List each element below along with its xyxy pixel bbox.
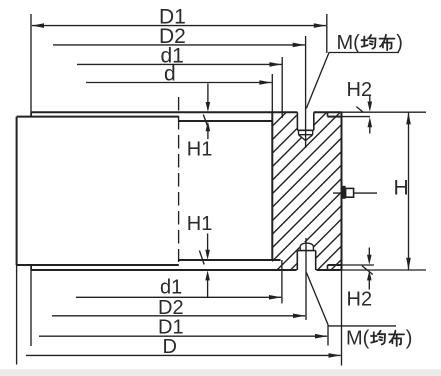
glyph jun top	[362, 35, 376, 49]
svg-text:): )	[406, 327, 413, 349]
dim d1 top line	[77, 63, 282, 65]
top hole centerline / D2 extension	[305, 36, 307, 148]
dim D2 bottom line	[52, 315, 305, 317]
svg-text:M(: M(	[337, 32, 361, 54]
dim d top extension	[271, 74, 273, 112]
label M bottom with leader	[306, 273, 396, 326]
bottom recess floor y=260	[179, 259, 281, 261]
dim H right	[408, 112, 410, 270]
svg-text:H2: H2	[347, 289, 373, 311]
svg-text:): )	[396, 32, 403, 54]
rim top outline y=112.2	[31, 111, 341, 113]
bottom-left shoulder edge y=265	[17, 264, 179, 266]
dim d1 bottom extension	[281, 260, 283, 304]
svg-text:d: d	[164, 63, 176, 86]
body right edge	[341, 112, 343, 270]
dim D2 top arrow	[293, 43, 305, 48]
svg-text:M(: M(	[346, 327, 370, 349]
dim d1 bottom arrow	[269, 295, 281, 300]
centerline (dashed axis)	[178, 97, 180, 262]
bottom threaded hole M (white cutout)	[297, 242, 317, 271]
svg-text:d1: d1	[160, 276, 182, 298]
bottom-right shoulder edge y=265	[328, 264, 342, 266]
label M top with leader	[306, 53, 399, 109]
svg-text:D: D	[163, 336, 177, 358]
dim D1 top left arrow	[32, 23, 44, 28]
hatched section block	[95, 100, 441, 290]
dim D1 top line	[32, 25, 326, 27]
glyph bu top	[380, 35, 395, 50]
step corner right top	[327, 112, 329, 116]
dim d top arrow	[259, 80, 271, 85]
right edge extension down to D dim	[341, 270, 343, 366]
step corner right bottom	[327, 265, 329, 270]
dim d1 top arrow	[269, 62, 281, 67]
left edge extension down to D dim	[16, 265, 18, 365]
top-right shoulder extension for H2	[342, 116, 371, 118]
svg-text:H2: H2	[347, 79, 373, 101]
dim D bottom arrow	[329, 353, 341, 358]
body left edge	[16, 117, 18, 265]
bottom threaded hole outline	[297, 251, 315, 270]
svg-text:H1: H1	[187, 139, 213, 161]
dim D2 top line	[53, 44, 305, 46]
step corner left top	[30, 112, 32, 116]
dim D1 bottom arrow	[315, 334, 327, 339]
dim D1 bottom line	[39, 335, 327, 337]
svg-text:H1: H1	[187, 213, 213, 235]
dim d1 top extension	[281, 57, 283, 118]
dim D1 top right extension	[326, 14, 328, 53]
dim d1 bottom line	[76, 296, 281, 298]
bottom-right shoulder extension for H2	[342, 264, 375, 266]
footer gray strip	[0, 369, 441, 376]
top threaded hole M (white cutout)	[297, 111, 315, 141]
dim D1 top right arrow	[314, 23, 326, 28]
dim D1 bottom right extension	[327, 325, 329, 346]
top recess floor y=121	[179, 120, 272, 122]
glyph jun bottom	[371, 331, 385, 345]
step corner left bottom	[30, 265, 32, 270]
top threaded hole outline	[297, 112, 313, 130]
dim d top line	[86, 82, 272, 84]
dim D1 top left extension	[30, 14, 32, 117]
rim bottom outline y=270	[31, 269, 342, 271]
section inner bore edge (block left)	[271, 112, 273, 260]
dim D2 bottom arrow	[293, 314, 305, 319]
svg-text:H: H	[394, 177, 409, 200]
rim bottom extension to H dim	[342, 269, 427, 271]
dim D1 bottom left extension	[30, 265, 32, 346]
bottom hole centerline / D2 extension	[305, 238, 307, 320]
top-left shoulder edge y=116.6	[17, 116, 179, 118]
side stud flange	[342, 186, 345, 199]
side stud centerline	[333, 192, 377, 194]
glyph bu bottom	[389, 331, 404, 346]
side stud nut	[346, 188, 354, 197]
dim D bottom line	[26, 354, 341, 356]
rim top extension line to H dim	[342, 111, 427, 113]
top-right shoulder edge y=116.6	[328, 116, 342, 118]
